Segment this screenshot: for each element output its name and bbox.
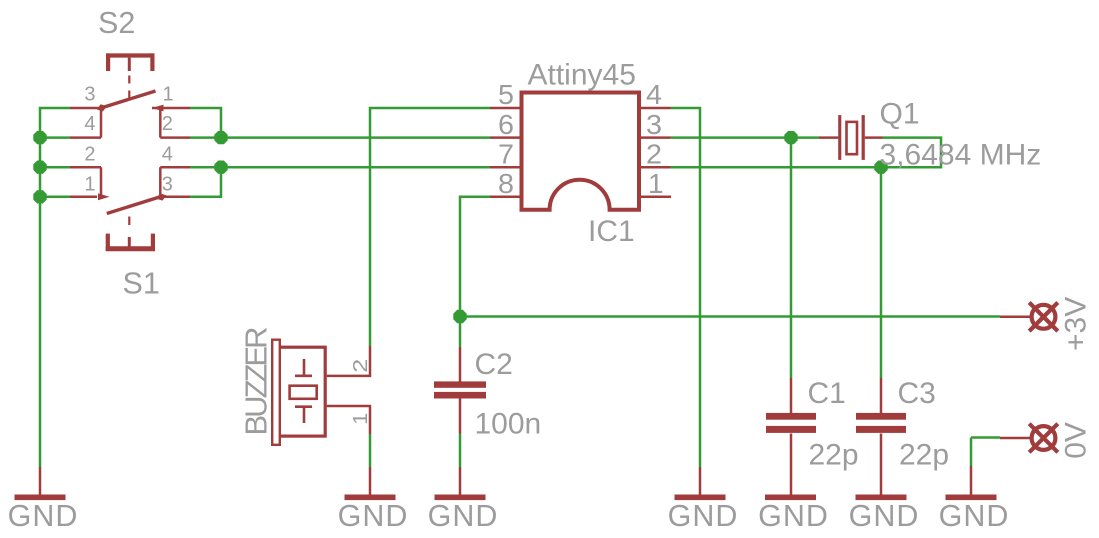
svg-text:C1: C1 <box>808 377 846 410</box>
svg-text:IC1: IC1 <box>588 215 635 248</box>
svg-text:Attiny45: Attiny45 <box>528 59 636 92</box>
svg-text:+3V: +3V <box>1060 297 1093 351</box>
svg-text:2: 2 <box>162 113 173 135</box>
svg-text:8: 8 <box>498 168 514 199</box>
svg-text:GND: GND <box>849 499 920 533</box>
svg-text:1: 1 <box>648 168 664 199</box>
svg-text:Q1: Q1 <box>880 98 920 131</box>
svg-text:C2: C2 <box>475 348 513 381</box>
svg-text:22p: 22p <box>809 439 859 472</box>
svg-text:22p: 22p <box>899 439 949 472</box>
svg-text:7: 7 <box>498 138 514 169</box>
svg-text:3,6484 MHz: 3,6484 MHz <box>880 139 1042 172</box>
svg-text:C3: C3 <box>898 377 936 410</box>
svg-text:GND: GND <box>758 499 829 533</box>
svg-text:BUZZER: BUZZER <box>239 328 274 436</box>
svg-text:5: 5 <box>498 79 514 110</box>
svg-text:100n: 100n <box>475 408 542 441</box>
svg-text:1: 1 <box>350 413 372 425</box>
svg-text:2: 2 <box>350 359 372 373</box>
svg-text:4: 4 <box>84 113 95 135</box>
svg-text:GND: GND <box>668 499 739 533</box>
svg-text:GND: GND <box>939 499 1010 533</box>
svg-text:GND: GND <box>8 499 79 533</box>
svg-text:0V: 0V <box>1060 422 1093 459</box>
svg-text:GND: GND <box>338 499 409 533</box>
svg-text:4: 4 <box>162 143 173 165</box>
svg-text:1: 1 <box>84 174 95 196</box>
svg-text:3: 3 <box>84 84 95 106</box>
svg-text:GND: GND <box>428 499 499 533</box>
svg-text:2: 2 <box>84 143 95 165</box>
svg-text:4: 4 <box>646 79 662 110</box>
svg-text:3: 3 <box>646 109 662 140</box>
svg-text:3: 3 <box>162 174 173 196</box>
svg-text:1: 1 <box>163 84 174 106</box>
svg-text:6: 6 <box>498 109 514 140</box>
svg-text:S1: S1 <box>123 267 160 301</box>
svg-text:S2: S2 <box>98 6 135 40</box>
svg-text:2: 2 <box>646 138 662 169</box>
